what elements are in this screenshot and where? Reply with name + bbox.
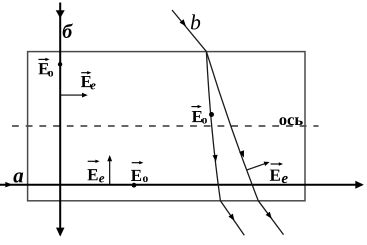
Eo dot on ray a [132,183,137,188]
label Eo top-left [38,63,48,74]
ordinary exit arrowhead [229,214,235,221]
label Ee bottom [87,169,97,180]
ordinary ray inside crystal [206,52,220,201]
ray a right arrowhead [355,181,364,189]
extraordinary ray inside crystal [206,52,258,201]
label v italic [191,14,200,29]
label a [13,172,23,182]
Ee arrow from ray b [60,94,83,96]
Ee polarization arrow on extraordinary ray [247,163,266,170]
label Eo bottom [131,170,141,181]
ordinary ray arrowhead [213,155,218,162]
label b cyrillic [63,23,73,38]
label Ee left [81,76,91,87]
Eo dot on ray b [58,62,62,66]
label Eo middle [192,111,202,122]
extraordinary exit ray [258,201,283,235]
ray b top arrowhead [56,10,65,18]
ordinary exit ray [220,201,244,236]
optic axis dashed line [12,125,319,127]
ray b bottom arrowhead [56,228,65,237]
extraordinary ray arrowhead [239,150,244,157]
ray a left arrowhead [5,182,13,188]
label Ee right [270,170,280,181]
incoming oblique ray v [172,10,206,52]
incoming ray arrowhead [180,19,187,26]
crystal plate rectangle [28,52,305,201]
ray b vertical line [59,3,61,236]
Eo dot on ordinary ray [209,112,214,117]
ray a horizontal line [0,184,362,186]
Ee up arrow on ray a [109,160,111,185]
label os optic axis [279,117,286,125]
extraordinary exit arrowhead [266,212,272,219]
